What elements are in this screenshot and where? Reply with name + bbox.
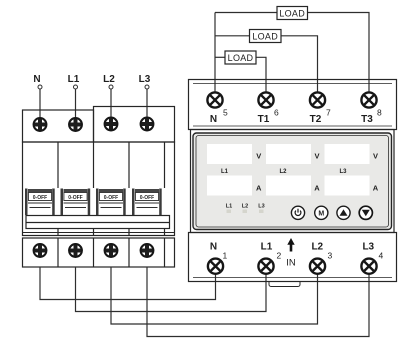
wire LOAD3 to meter T1 (pin 6) [256, 57, 266, 100]
svg-text:5: 5 [223, 108, 228, 118]
svg-text:N: N [210, 242, 217, 253]
svg-text:2: 2 [277, 251, 282, 261]
node L1 (supply) [68, 74, 80, 89]
load LOAD3 [225, 51, 256, 64]
svg-text:L2: L2 [103, 74, 115, 85]
svg-text:0-OFF: 0-OFF [140, 195, 154, 201]
svg-text:LOAD: LOAD [279, 8, 305, 18]
svg-text:IN: IN [286, 258, 296, 269]
display digit window L2 current [266, 176, 311, 196]
breaker terminal screw top pole 4 [141, 118, 154, 131]
meter pin label L1 2 [261, 242, 282, 261]
svg-text:V: V [256, 152, 261, 161]
load LOAD2 [250, 30, 282, 43]
svg-text:T3: T3 [361, 114, 373, 125]
meter terminal screw L3 pin 4 [361, 259, 376, 274]
meter pin label T2 7 [310, 108, 331, 126]
breaker terminal screw top pole 3 [105, 118, 118, 131]
display indicator L3 [258, 204, 264, 214]
meter terminal screw N pin 1 [208, 259, 223, 274]
node N (supply) [33, 74, 42, 89]
button down [359, 206, 372, 219]
breaker tie bar [26, 216, 170, 229]
meter terminal screw T2 pin 7 [310, 92, 325, 107]
display digit window L2 voltage [266, 144, 311, 164]
IN direction arrow [286, 238, 296, 269]
meter terminal screw T3 pin 8 [361, 92, 376, 107]
wire breaker N to meter terminal 1 [40, 266, 216, 300]
energy meter M1 housing [189, 80, 397, 287]
svg-text:V: V [373, 152, 378, 161]
meter terminal screw L2 pin 3 [310, 259, 325, 274]
breaker terminal screw bottom pole 4 [141, 244, 154, 257]
wire load bus to LOAD3 [215, 56, 225, 58]
svg-text:LOAD: LOAD [252, 31, 278, 41]
button power [291, 206, 304, 219]
svg-text:L1: L1 [68, 74, 80, 85]
svg-text:T1: T1 [258, 114, 270, 125]
meter pin label T1 6 [258, 108, 279, 126]
svg-text:L1: L1 [226, 204, 232, 210]
meter terminal screw N pin 5 [207, 92, 222, 107]
meter pin label T3 8 [361, 108, 382, 126]
breaker terminal screw bottom pole 3 [105, 244, 118, 257]
breaker terminal screw top pole 1 [34, 118, 47, 131]
svg-text:6: 6 [274, 108, 279, 118]
meter pin label N 5 [210, 108, 228, 126]
node L2 (supply) [103, 74, 115, 89]
svg-text:4: 4 [379, 251, 384, 261]
svg-text:N: N [210, 114, 217, 125]
svg-text:7: 7 [326, 108, 331, 118]
wire meter N (pin 5) to load bus [214, 13, 216, 101]
svg-text:L2: L2 [311, 242, 323, 253]
svg-text:8: 8 [377, 108, 382, 118]
svg-text:L3: L3 [258, 204, 264, 210]
wire L1 supply to breaker [75, 89, 77, 125]
circuit breaker CB1 housing [23, 107, 175, 268]
wire breaker L2 to meter terminal 3 [111, 266, 318, 325]
meter terminal screw L1 pin 2 [258, 259, 273, 274]
display digit window L1 current [207, 176, 252, 196]
svg-text:L3: L3 [339, 169, 347, 175]
button up [337, 206, 350, 219]
svg-text:0-OFF: 0-OFF [104, 195, 118, 201]
display digit window L3 current [325, 176, 370, 196]
svg-text:V: V [314, 152, 319, 161]
breaker handle pole 3 (0-OFF) [96, 189, 126, 216]
breaker terminal screw bottom pole 2 [69, 244, 82, 257]
svg-text:A: A [256, 184, 262, 193]
wire breaker L3 to meter terminal 4 [147, 266, 369, 337]
breaker terminal screw top pole 2 [69, 118, 82, 131]
button M (mode) [315, 206, 328, 219]
svg-text:0-OFF: 0-OFF [68, 195, 82, 201]
meter display panel [193, 133, 392, 230]
display indicator L2 [242, 204, 248, 214]
svg-text:L2: L2 [279, 169, 287, 175]
svg-text:L3: L3 [362, 242, 374, 253]
svg-text:1: 1 [223, 251, 228, 261]
wire L2 supply to breaker [110, 89, 112, 124]
wire breaker L1 to meter terminal 2 [76, 266, 267, 312]
display digit window L1 voltage [207, 144, 252, 164]
wire LOAD1 to meter T3 (pin 8) [308, 13, 370, 101]
svg-text:N: N [33, 74, 40, 85]
svg-text:L1: L1 [221, 169, 229, 175]
svg-text:L2: L2 [242, 204, 248, 210]
meter pin label L3 4 [362, 242, 383, 261]
svg-text:L3: L3 [139, 74, 151, 85]
load LOAD1 [277, 7, 308, 20]
meter terminal screw T1 pin 6 [258, 92, 273, 107]
meter pin label L2 3 [311, 242, 332, 261]
svg-text:3: 3 [328, 251, 333, 261]
wire N supply to breaker [39, 89, 41, 125]
display indicator L1 [226, 204, 232, 214]
wire LOAD2 to meter T2 (pin 7) [281, 36, 318, 100]
meter pin label N 1 [210, 242, 228, 261]
svg-text:LOAD: LOAD [228, 53, 254, 63]
breaker handle pole 1 (0-OFF) [25, 189, 55, 216]
wire L3 supply to breaker [146, 89, 148, 124]
wire load bus to LOAD1 [215, 12, 277, 14]
svg-text:A: A [373, 184, 379, 193]
breaker terminal screw bottom pole 1 [34, 244, 47, 257]
svg-text:M: M [318, 210, 324, 217]
breaker handle pole 4 (0-OFF) [132, 189, 162, 216]
node L3 (supply) [139, 74, 151, 89]
display digit window L3 voltage [325, 144, 370, 164]
wire load bus to LOAD2 [215, 35, 250, 37]
svg-text:A: A [314, 184, 320, 193]
svg-text:T2: T2 [310, 114, 322, 125]
breaker handle pole 2 (0-OFF) [61, 189, 91, 216]
svg-text:L1: L1 [261, 242, 273, 253]
svg-text:0-OFF: 0-OFF [33, 195, 47, 201]
